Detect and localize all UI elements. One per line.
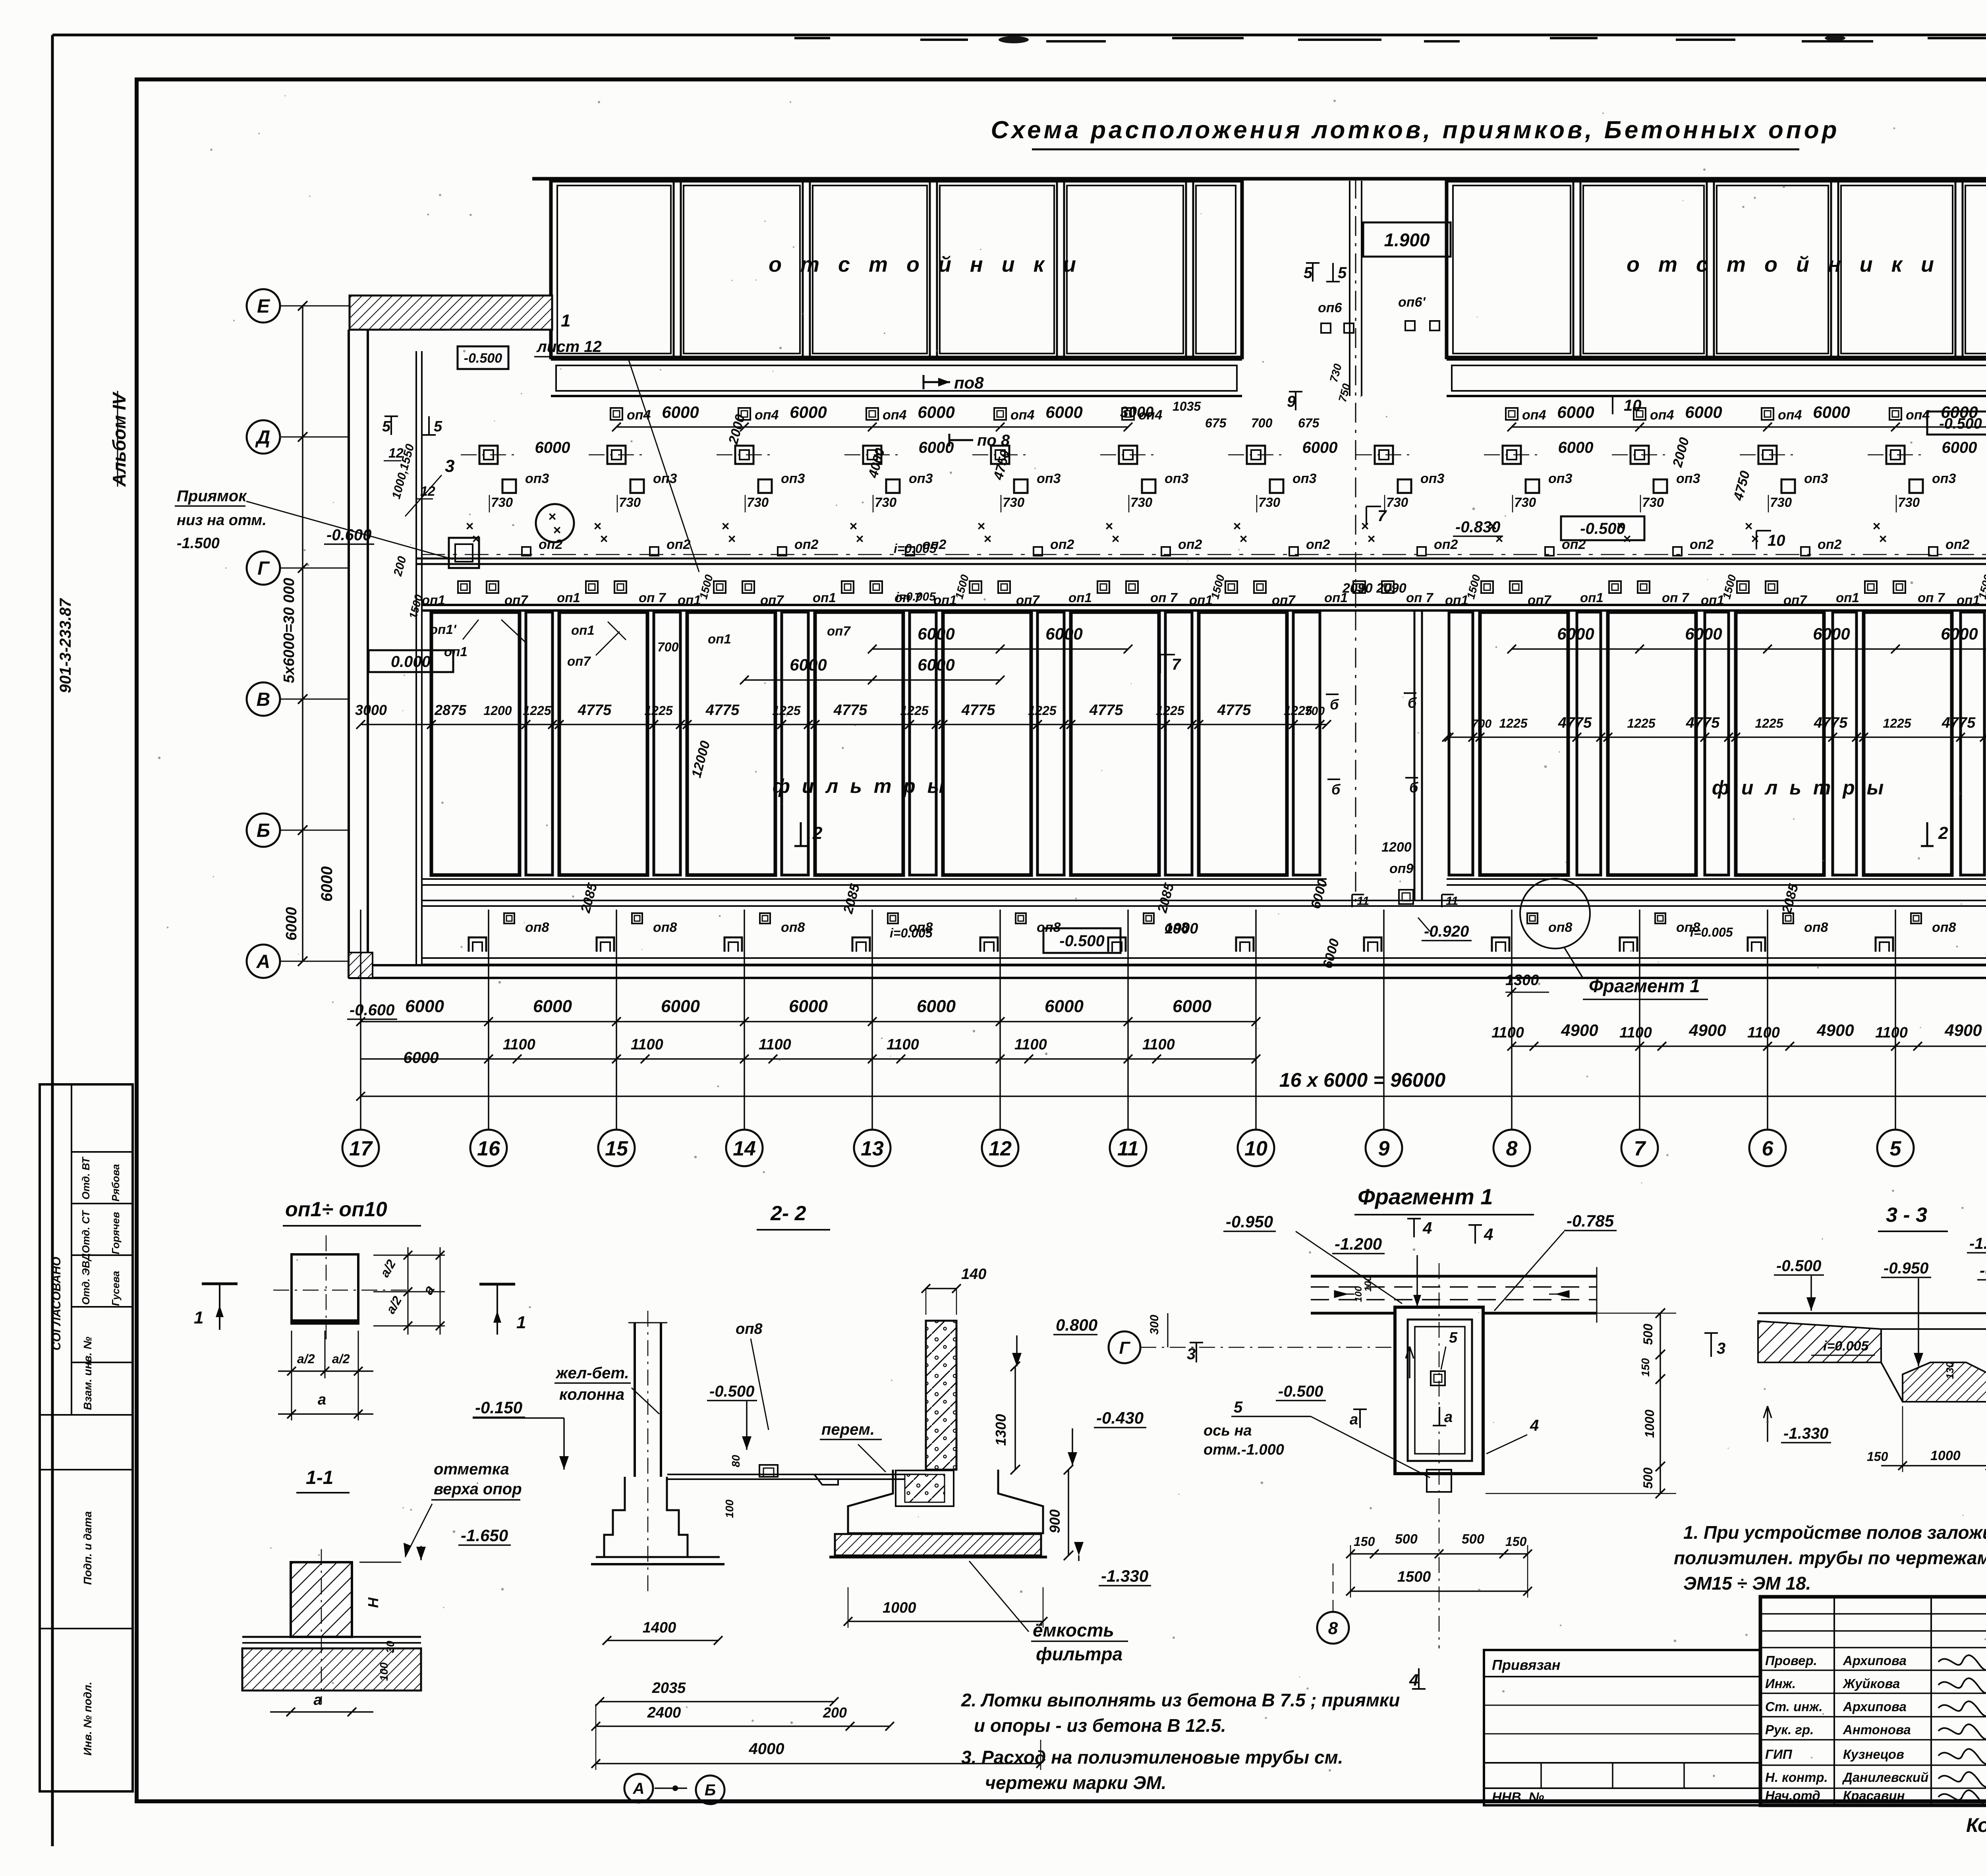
svg-text:оп 7: оп 7: [639, 590, 666, 605]
svg-text:Отд. СТ: Отд. СТ: [80, 1210, 92, 1253]
margin label Альбом IV: [109, 391, 129, 487]
svg-text:12: 12: [989, 1137, 1012, 1160]
svg-text:6000: 6000: [1045, 997, 1084, 1016]
svg-text:оп1: оп1: [422, 593, 445, 607]
fragment 1 bottom dims: [1346, 1532, 1532, 1598]
svg-text:13: 13: [861, 1137, 884, 1160]
svg-text:Гусева: Гусева: [110, 1271, 122, 1306]
svg-text:а: а: [1350, 1411, 1358, 1428]
left vertical dim 6000: [318, 866, 336, 902]
svg-text:6000: 6000: [790, 403, 827, 421]
svg-text:6: 6: [1762, 1137, 1774, 1160]
svg-text:-0.785: -0.785: [1980, 1262, 1986, 1279]
svg-text:а/2: а/2: [332, 1352, 350, 1366]
svg-text:140: 140: [961, 1266, 986, 1283]
svg-text:Альбом IV: Альбом IV: [109, 392, 129, 487]
rotated dims left wall: [390, 442, 425, 620]
svg-text:-0.830: -0.830: [1455, 518, 1500, 536]
svg-text:4900: 4900: [1816, 1021, 1854, 1039]
svg-text:15: 15: [605, 1137, 628, 1160]
svg-text:оп3: оп3: [781, 471, 805, 486]
svg-text:1225: 1225: [523, 703, 551, 718]
svg-text:Г: Г: [1119, 1338, 1130, 1358]
svg-text:Нач.отд: Нач.отд: [1765, 1788, 1820, 1803]
section marks 2 in filters: [794, 822, 1948, 846]
svg-text:6000: 6000: [535, 439, 570, 456]
svg-text:оп8: оп8: [736, 1321, 763, 1337]
level -1.330 in 2-2: [1074, 1542, 1151, 1586]
svg-text:730: 730: [619, 495, 641, 510]
svg-text:2035: 2035: [652, 1680, 686, 1696]
detail title 3-3: [1878, 1204, 1948, 1231]
svg-text:оп7: оп7: [1272, 593, 1296, 607]
svg-text:Отд. ВТ: Отд. ВТ: [80, 1156, 92, 1200]
margin label 901-3-233.87: [57, 598, 74, 693]
svg-text:500: 500: [1641, 1323, 1655, 1345]
svg-text:оп3: оп3: [909, 471, 933, 486]
3-3 bottom dims: [1867, 1406, 1986, 1472]
svg-text:оп1÷ оп10: оп1÷ оп10: [285, 1198, 387, 1221]
svg-text:1225: 1225: [1755, 716, 1783, 730]
svg-text:оп1: оп1: [708, 632, 731, 646]
svg-text:730: 730: [1386, 495, 1408, 510]
svg-text:по8: по8: [954, 373, 984, 392]
svg-text:1225: 1225: [900, 703, 929, 718]
svg-text:4: 4: [1422, 1219, 1432, 1237]
svg-text:100: 100: [723, 1499, 736, 1518]
labels оп1 оп7 upper-left of filters: [430, 620, 851, 668]
svg-text:6000: 6000: [405, 997, 444, 1016]
svg-text:5: 5: [1338, 264, 1347, 282]
fragment 1 level -0.500 inner: [1276, 1347, 1414, 1401]
svg-text:2400: 2400: [647, 1704, 681, 1721]
svg-text:100: 100: [1353, 1286, 1364, 1302]
svg-text:ф и л ь т р ы: ф и л ь т р ы: [773, 775, 948, 797]
svg-text:1400: 1400: [643, 1619, 676, 1636]
svg-text:оп4: оп4: [755, 408, 779, 423]
svg-text:лист 12: лист 12: [536, 338, 602, 355]
section mark 9 centre: [1287, 392, 1302, 410]
svg-text:фильтра: фильтра: [1036, 1644, 1122, 1664]
dim 1000 2-2: [844, 1587, 1047, 1628]
label по8 with section mark: [923, 373, 984, 392]
svg-text:оп7: оп7: [504, 593, 528, 607]
svg-text:1000: 1000: [883, 1600, 916, 1616]
svg-text:5: 5: [1890, 1137, 1902, 1160]
svg-text:-0.500: -0.500: [1580, 520, 1625, 537]
3-3 section drawing: [1758, 1309, 1986, 1402]
svg-text:Данилевский: Данилевский: [1842, 1770, 1928, 1785]
svg-text:Б: Б: [705, 1781, 716, 1799]
svg-text:Кузнецов: Кузнецов: [1843, 1747, 1904, 1762]
fragment 1 right dim chain: [1486, 1308, 1676, 1498]
svg-text:о т с т о й н и к и: о т с т о й н и к и: [1627, 253, 1940, 276]
dim row 6000 left: [356, 997, 1260, 1026]
svg-text:1100: 1100: [1142, 1036, 1175, 1053]
svg-text:4775: 4775: [961, 702, 995, 719]
column foundation steps: [591, 1477, 724, 1564]
dim 140 top of pier: [922, 1266, 986, 1315]
svg-text:-0.500: -0.500: [1939, 415, 1982, 432]
floor lines 2-2: [667, 1455, 926, 1518]
svg-text:оп4: оп4: [883, 408, 907, 423]
svg-text:6000: 6000: [1685, 624, 1722, 643]
dim 1300 2-2: [993, 1362, 1020, 1474]
label отметка верха опор: [404, 1461, 522, 1557]
svg-text:1100: 1100: [759, 1036, 791, 1053]
svg-text:о т с т о й н и к и: о т с т о й н и к и: [769, 253, 1082, 276]
svg-text:730: 730: [1898, 495, 1920, 510]
detail оп dims bottom: [278, 1331, 373, 1420]
svg-text:×: ×: [1111, 531, 1119, 547]
svg-text:оп9: оп9: [1389, 861, 1414, 876]
svg-text:3: 3: [1187, 1345, 1196, 1363]
svg-text:i=0.005: i=0.005: [890, 926, 933, 940]
svg-text:1500: 1500: [1397, 1569, 1431, 1585]
svg-text:2875: 2875: [434, 702, 467, 718]
svg-text:3 - 3: 3 - 3: [1886, 1204, 1927, 1227]
svg-text:17: 17: [349, 1137, 373, 1160]
svg-text:-0.950: -0.950: [1884, 1260, 1928, 1277]
fragment 1 tray plan: [1311, 1267, 1597, 1323]
svg-text:2090 2090: 2090 2090: [1342, 581, 1406, 596]
svg-text:оп4: оп4: [1778, 408, 1802, 423]
dim row 4775 1225 across filters left: [355, 702, 1331, 729]
svg-text:8: 8: [1328, 1619, 1338, 1638]
svg-text:Рябова: Рябова: [110, 1164, 122, 1202]
svg-text:675: 675: [1205, 416, 1227, 430]
svg-text:6000: 6000: [404, 1049, 439, 1066]
svg-text:4775: 4775: [578, 702, 612, 719]
svg-text:Архипова: Архипова: [1843, 1699, 1907, 1714]
svg-text:оп8: оп8: [1932, 920, 1956, 935]
svg-text:×: ×: [856, 531, 864, 547]
svg-text:ось на: ось на: [1204, 1422, 1252, 1439]
svg-text:оп 7: оп 7: [1406, 590, 1433, 605]
svg-text:оп1: оп1: [444, 644, 468, 659]
svg-text:11: 11: [1357, 895, 1369, 908]
svg-text:730: 730: [875, 495, 897, 510]
detail оп support plan view: [273, 1235, 409, 1343]
svg-text:5: 5: [382, 418, 391, 435]
svg-text:-0.500: -0.500: [1278, 1383, 1323, 1400]
svg-text:-0.500: -0.500: [1059, 932, 1104, 950]
svg-text:оп3: оп3: [1676, 471, 1700, 486]
svg-text:10: 10: [1768, 532, 1785, 549]
svg-text:низ на отм.: низ на отм.: [177, 512, 267, 529]
svg-text:оп2: оп2: [794, 537, 819, 552]
svg-text:оп2: оп2: [1945, 537, 1970, 552]
svg-text:4900: 4900: [1561, 1021, 1598, 1039]
svg-text:оп2: оп2: [1050, 537, 1074, 552]
fragment 1 label ось на отм: [1204, 1399, 1430, 1478]
scan noise dashes top edge: [794, 38, 1986, 41]
svg-text:Провер.: Провер.: [1765, 1653, 1817, 1668]
svg-text:отметка: отметка: [434, 1461, 509, 1478]
svg-text:4: 4: [1530, 1417, 1539, 1434]
svg-text:1100: 1100: [1747, 1024, 1780, 1041]
svg-text:Фрагмент 1: Фрагмент 1: [1589, 976, 1700, 996]
svg-text:3000: 3000: [355, 702, 387, 718]
svg-text:Рук. гр.: Рук. гр.: [1765, 1722, 1814, 1737]
svg-text:Копировал: Антипова.: Копировал: Антипова.: [1966, 1814, 1986, 1836]
svg-text:i=0.005: i=0.005: [1690, 925, 1733, 939]
svg-text:×: ×: [728, 531, 736, 547]
привязан box: [1484, 1650, 1760, 1805]
svg-text:ГИП: ГИП: [1765, 1747, 1793, 1762]
svg-text:6000: 6000: [661, 997, 700, 1016]
fragment 1 a marks: [1350, 1407, 1539, 1454]
svg-text:а: а: [318, 1391, 326, 1408]
svg-text:оп3: оп3: [1420, 471, 1445, 486]
svg-text:и опоры - из бетона В 12.5: и опоры - из бетона В 12.5.: [974, 1715, 1226, 1736]
svg-text:150: 150: [1867, 1449, 1888, 1464]
svg-text:Н. контр.: Н. контр.: [1765, 1770, 1828, 1785]
svg-text:оп1: оп1: [557, 590, 580, 605]
label ёмкость фильтра: [969, 1561, 1128, 1664]
svg-text:Н: Н: [365, 1597, 381, 1608]
svg-text:9: 9: [1287, 393, 1296, 410]
svg-text:Приямок: Приямок: [177, 487, 247, 505]
svg-text:жел-бет.: жел-бет.: [555, 1364, 629, 1382]
level 0.800: [1012, 1316, 1097, 1366]
svg-text:6000: 6000: [918, 624, 954, 643]
svg-text:-0.600: -0.600: [350, 1001, 394, 1019]
svg-text:Схема расположения лотков,: Схема расположения лотков, приямков, Бет…: [991, 116, 1839, 144]
dim row 1100 4900 right: [1491, 1021, 1986, 1051]
svg-text:оп2: оп2: [1306, 537, 1330, 552]
svg-text:Е: Е: [257, 296, 270, 317]
svg-text:6000: 6000: [283, 907, 300, 941]
svg-text:3000: 3000: [1120, 404, 1154, 421]
3-3 levels: [1764, 1235, 1986, 1443]
svg-text:-0.430: -0.430: [1096, 1408, 1144, 1427]
svg-text:4775: 4775: [705, 702, 740, 719]
fragment 1 left axis Г: [1109, 1275, 1395, 1363]
svg-text:-0.785: -0.785: [1567, 1211, 1614, 1230]
svg-text:оп3: оп3: [1804, 471, 1828, 486]
svg-text:6000: 6000: [1302, 439, 1338, 456]
svg-text:900: 900: [1047, 1509, 1063, 1533]
svg-text:6000: 6000: [1685, 403, 1722, 421]
settling tanks right block: [1447, 181, 1986, 396]
svg-text:1225: 1225: [1499, 716, 1528, 730]
svg-text:11: 11: [1446, 895, 1458, 908]
dim row 4775 1225 across filters right: [1442, 715, 1986, 742]
level box -0.500 top left: [458, 346, 508, 369]
marked support circle with crosses: [536, 504, 574, 542]
svg-text:СОГЛАСОВАНО: СОГЛАСОВАНО: [50, 1257, 63, 1350]
svg-text:Инж.: Инж.: [1765, 1676, 1796, 1691]
svg-text:-1.650: -1.650: [461, 1526, 508, 1545]
svg-text:оп7: оп7: [567, 654, 591, 668]
svg-text:оп 7: оп 7: [1918, 590, 1945, 605]
supports оп8 row: [469, 913, 1986, 952]
svg-text:1225: 1225: [1028, 703, 1057, 718]
svg-text:i=0.005: i=0.005: [896, 590, 936, 603]
svg-text:1100: 1100: [1875, 1024, 1908, 1041]
svg-text:1300: 1300: [993, 1414, 1009, 1446]
svg-text:6000: 6000: [1045, 403, 1082, 421]
svg-text:150: 150: [1639, 1358, 1652, 1377]
fragment 1 levels: [1223, 1211, 1617, 1311]
svg-text:4900: 4900: [1688, 1021, 1726, 1039]
svg-text:ЭМ15 ÷ ЭМ 18.: ЭМ15 ÷ ЭМ 18.: [1683, 1573, 1811, 1594]
svg-text:оп7: оп7: [1783, 593, 1807, 607]
svg-text:оп 7: оп 7: [1662, 590, 1689, 605]
svg-text:оп8: оп8: [653, 920, 677, 935]
svg-text:а/2: а/2: [297, 1352, 315, 1366]
svg-text:оп3: оп3: [525, 471, 549, 486]
svg-text:730: 730: [1258, 495, 1281, 510]
label Фрагмент 1 on plan: [1583, 976, 1708, 999]
svg-text:1.900: 1.900: [1384, 230, 1430, 250]
level -0.920: [1418, 918, 1472, 941]
svg-text:1100: 1100: [503, 1036, 535, 1053]
dim rows 6000 above filters: [740, 624, 1986, 684]
supports axis Д row (large double squares): [461, 439, 1986, 464]
fragment 1 callout circle: [1520, 879, 1590, 978]
svg-text:-1.200: -1.200: [1969, 1235, 1986, 1252]
svg-text:7: 7: [1634, 1137, 1646, 1160]
filter tank pier 2-2: [829, 1321, 1047, 1557]
svg-text:Д: Д: [255, 427, 270, 448]
svg-text:1225: 1225: [1156, 703, 1184, 718]
svg-text:Красавин: Красавин: [1843, 1788, 1905, 1803]
svg-text:11: 11: [1117, 1137, 1139, 1160]
supports оп1 and оп7 row: [422, 573, 1986, 611]
svg-text:Привязан: Привязан: [1492, 1657, 1561, 1673]
svg-text:оп2: оп2: [667, 537, 691, 552]
dim row 1100 left: [361, 1036, 1260, 1066]
svg-text:Г: Г: [257, 558, 270, 579]
svg-text:-0.500: -0.500: [709, 1383, 754, 1400]
dim 1300: [1505, 972, 1549, 997]
svg-text:ННВ. №: ННВ. №: [1492, 1790, 1544, 1805]
svg-text:4775: 4775: [1814, 715, 1848, 731]
svg-text:6000: 6000: [533, 997, 572, 1016]
filter cells right group: [1449, 612, 1986, 875]
labels оп6 centre: [1318, 295, 1439, 404]
svg-text:оп4: оп4: [1010, 408, 1035, 423]
svg-text:оп1: оп1: [571, 623, 595, 638]
svg-text:×: ×: [1879, 531, 1887, 547]
svg-text:2. Лотки выполнять из бетона: 2. Лотки выполнять из бетона В 7.5 ; при…: [961, 1690, 1400, 1710]
svg-text:оп4: оп4: [1522, 408, 1546, 423]
svg-text:1100: 1100: [887, 1036, 919, 1053]
svg-text:100: 100: [1363, 1275, 1374, 1292]
filters bottom boundary: [421, 879, 1986, 885]
column axis extension lines: [361, 910, 1986, 1130]
svg-text:6000: 6000: [1558, 439, 1594, 456]
svg-text:700: 700: [657, 640, 679, 654]
svg-text:2- 2: 2- 2: [770, 1202, 806, 1225]
detail title оп1-оп10: [283, 1198, 421, 1226]
settling tanks left block: [551, 181, 1242, 396]
left inner wall: [416, 351, 422, 965]
svg-text:10: 10: [1624, 397, 1642, 414]
svg-text:730: 730: [491, 495, 513, 510]
detail оп dims right: [373, 1247, 445, 1335]
svg-text:1035: 1035: [1173, 399, 1201, 413]
svg-text:полиэтилен. трубы по чертежа: полиэтилен. трубы по чертежам: [1674, 1548, 1986, 1568]
label перем: [820, 1421, 886, 1472]
svg-text:оп4: оп4: [1650, 408, 1674, 423]
svg-text:i=0.005: i=0.005: [894, 541, 937, 556]
svg-text:оп7: оп7: [827, 624, 851, 638]
svg-text:4775: 4775: [1217, 702, 1251, 719]
svg-text:150: 150: [1505, 1534, 1527, 1549]
svg-text:б: б: [1409, 779, 1419, 796]
svg-text:оп6: оп6: [1318, 300, 1343, 315]
svg-text:-0.920: -0.920: [1424, 923, 1469, 940]
svg-text:оп1: оп1: [813, 590, 836, 605]
svg-text:оп1: оп1: [1068, 590, 1092, 605]
tray lines above axis А: [421, 900, 1986, 964]
level -0.500 in 2-2: [707, 1383, 757, 1450]
svg-text:1200: 1200: [1381, 840, 1412, 855]
svg-text:1: 1: [516, 1313, 526, 1332]
svg-text:730: 730: [1770, 495, 1792, 510]
detail 1-1 drawing: [242, 1549, 421, 1716]
svg-text:1100: 1100: [631, 1036, 663, 1053]
svg-text:6000: 6000: [1045, 624, 1082, 643]
svg-text:6000: 6000: [1557, 624, 1594, 643]
svg-text:4: 4: [1409, 1671, 1418, 1689]
svg-text:оп2: оп2: [1178, 537, 1202, 552]
svg-text:3: 3: [445, 456, 454, 476]
svg-text:Взам. инв. №: Взам. инв. №: [81, 1337, 94, 1410]
left outer wall: [349, 330, 368, 978]
svg-text:6000: 6000: [919, 439, 954, 456]
svg-text:4900: 4900: [1944, 1021, 1982, 1039]
svg-text:оп7: оп7: [1016, 593, 1040, 607]
svg-text:6000: 6000: [1813, 403, 1850, 421]
svg-text:16: 16: [477, 1137, 500, 1160]
svg-text:оп3: оп3: [1292, 471, 1317, 486]
svg-text:×: ×: [1239, 531, 1247, 547]
svg-text:9: 9: [1378, 1137, 1390, 1160]
label по8 second: [949, 432, 1010, 449]
svg-text:6000: 6000: [790, 655, 827, 674]
svg-text:6000: 6000: [1557, 403, 1594, 421]
svg-text:А: А: [633, 1780, 645, 1797]
svg-text:6000: 6000: [318, 866, 336, 902]
svg-text:оп8: оп8: [1804, 920, 1828, 935]
level -0.150: [473, 1398, 569, 1470]
wall on axis Е left (hatched): [350, 296, 552, 330]
svg-text:-1.200: -1.200: [1335, 1235, 1382, 1253]
svg-text:1: 1: [561, 311, 570, 330]
svg-text:оп3: оп3: [1932, 471, 1956, 486]
svg-text:675: 675: [1298, 416, 1320, 430]
svg-text:100: 100: [378, 1662, 390, 1681]
svg-text:730: 730: [1514, 495, 1536, 510]
svg-text:-0.150: -0.150: [475, 1398, 522, 1417]
svg-text:колонна: колонна: [559, 1386, 624, 1403]
svg-text:16 х 6000 = 96000: 16 х 6000 = 96000: [1279, 1069, 1446, 1091]
svg-text:700: 700: [1305, 705, 1325, 718]
supports оп2 row: [522, 537, 1986, 556]
svg-text:8: 8: [1506, 1137, 1518, 1160]
svg-text:×: ×: [983, 531, 991, 547]
support оп8 in section: [736, 1321, 778, 1477]
svg-text:отм.-1.000: отм.-1.000: [1204, 1441, 1284, 1458]
level box 0.000 left: [369, 650, 453, 672]
svg-text:2: 2: [1938, 823, 1948, 843]
rotated dims in plan: [578, 413, 1986, 970]
section marks 5 top-centre: [1304, 263, 1347, 282]
